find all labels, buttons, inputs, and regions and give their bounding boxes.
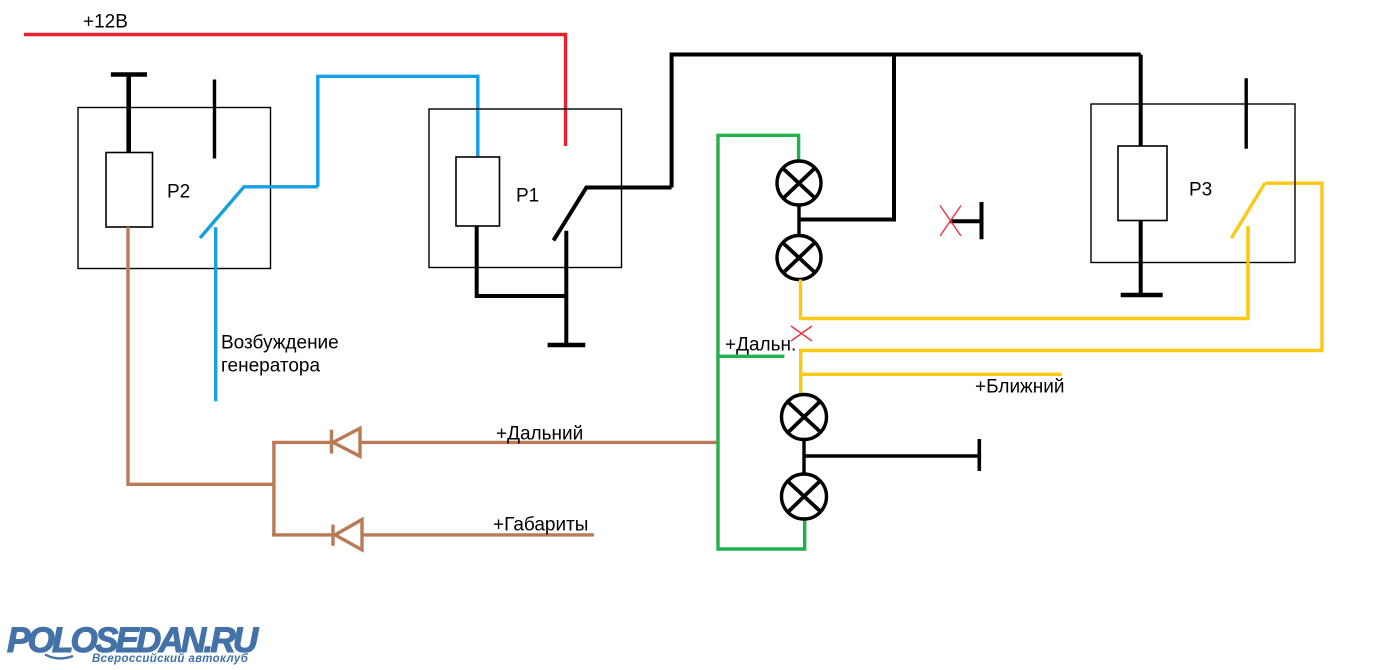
logo POLOSEDAN.RU [7, 621, 259, 665]
wire P3 coil to ground [1139, 221, 1143, 296]
connector T1 [950, 202, 982, 239]
connector T2 [804, 439, 979, 471]
red X cut mark [791, 326, 812, 341]
svg-text:генератора: генератора [221, 356, 320, 377]
diode D1 [332, 428, 361, 456]
svg-text:+Габариты: +Габариты [493, 515, 588, 536]
svg-text:+Ближний: +Ближний [975, 377, 1064, 398]
svg-text:P2: P2 [167, 182, 190, 203]
wire brown to diode D2 [272, 533, 333, 536]
svg-text:+Дальн.: +Дальн. [725, 335, 796, 356]
wire brown branch riser [272, 441, 275, 535]
logo swoosh [45, 655, 73, 659]
wire P1 coil to pole (black) [477, 226, 568, 296]
wire +Ближний (yellow) [801, 373, 1062, 376]
relay P2 box [78, 108, 271, 269]
wire green loop [718, 135, 805, 549]
relay P3 switch arm (yellow) [1231, 183, 1264, 238]
relay P1 coil [456, 157, 500, 226]
wire yellow P3 NO contact loop [801, 183, 1322, 396]
relay P3 contact pin [1244, 78, 1247, 149]
ground P1 [548, 343, 586, 348]
relay P2 contact pin [213, 80, 216, 159]
red X over T1 [940, 206, 961, 237]
relay P2 coil [106, 153, 153, 228]
wire yellow lamp L2 to P3 pole [801, 226, 1249, 318]
wire green stub (+Дальн branch) [716, 355, 784, 358]
relay P1 box [429, 109, 622, 268]
wire lamp L3 to L4 [802, 440, 805, 475]
lamp L1 [777, 161, 821, 205]
wire blue P2 to P1 coil [318, 76, 478, 187]
relay P3 coil [1118, 146, 1167, 221]
wire +Габариты (brown) [362, 533, 594, 536]
wire +12V (red bus) [24, 35, 566, 147]
wire brown to diode D1 [272, 441, 331, 444]
relay P1 pole wire [564, 231, 568, 345]
diode D2 [333, 520, 362, 550]
relay P1 switch arm [554, 188, 672, 241]
ground P3 [1121, 293, 1163, 298]
wire lamp L1 to L2 [797, 205, 800, 236]
relay P2 terminal T-bar [111, 73, 147, 153]
svg-text:Всероссийский автоклуб: Всероссийский автоклуб [92, 653, 249, 665]
wire black bus to P3 coil [1139, 55, 1143, 147]
lamp L4 [782, 474, 827, 519]
relay P2 switch arm (blue) [200, 187, 318, 238]
lamp L2 [777, 236, 821, 280]
wire +Дальний (brown) [360, 441, 720, 444]
relay P3 pole wire (yellow) [1246, 226, 1249, 318]
svg-text:+Дальний: +Дальний [496, 424, 583, 445]
wire excitation generator (blue) pole [214, 227, 217, 401]
svg-text:Возбуждение: Возбуждение [221, 333, 339, 354]
svg-text:P3: P3 [1189, 180, 1212, 201]
wire black drop to lamp pair 1 [799, 55, 894, 220]
svg-text:P1: P1 [516, 186, 539, 207]
wire brown from P2 coil [128, 227, 274, 484]
lamp L3 [782, 395, 827, 440]
wire black bus top [672, 55, 1141, 188]
svg-text:+12В: +12В [83, 12, 128, 33]
relay P3 box [1091, 104, 1295, 263]
